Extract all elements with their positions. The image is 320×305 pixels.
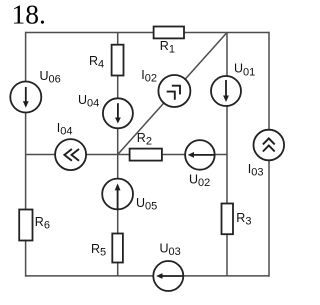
source U06 (down arrow) [10, 82, 41, 113]
resistor R4 [112, 45, 124, 76]
wire: center vertical branch (R4-U04-U05-R5) [117, 33, 119, 276]
source U01 (down arrow) [211, 76, 241, 106]
wire: top (node A to node B) [26, 32, 269, 34]
source I04 (double left chevrons) [55, 139, 86, 170]
resistor R5 [112, 234, 123, 263]
resistor R3 [222, 204, 234, 235]
wire: bottom [26, 275, 269, 277]
wire: right side [268, 32, 270, 277]
wire: left side [25, 32, 27, 277]
wire: diagonal through I02 [118, 33, 227, 155]
wire: inner right vertical branch (U01-R3) [226, 33, 228, 276]
resistor R6 [19, 210, 32, 241]
source U04 (down arrow) [103, 98, 133, 128]
svg-text:18.: 18. [12, 0, 46, 29]
source I02 (double corner chevrons on diagonal) [158, 75, 190, 107]
source U03 (left arrow) [153, 261, 183, 291]
source U05 (up arrow) [102, 179, 133, 210]
resistor R1 [154, 27, 184, 39]
source I03 (double up chevrons) [253, 130, 284, 161]
source U02 (left arrow) [185, 140, 215, 170]
resistor R2 [130, 149, 162, 161]
wire: middle horizontal (I04-R2-U02) [26, 154, 227, 156]
